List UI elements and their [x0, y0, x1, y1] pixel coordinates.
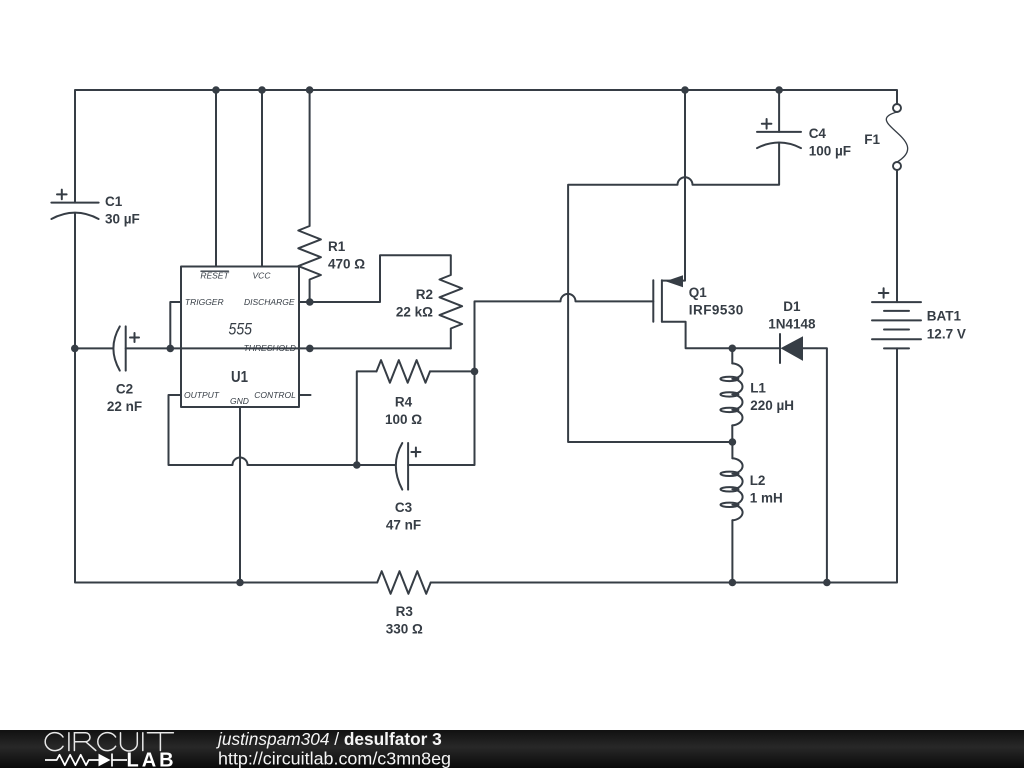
- svg-text:47 nF: 47 nF: [386, 517, 421, 532]
- svg-text:L2: L2: [750, 473, 766, 488]
- svg-text:L1: L1: [750, 381, 766, 396]
- svg-text:OUTPUT: OUTPUT: [184, 390, 220, 400]
- svg-text:TRIGGER: TRIGGER: [185, 297, 224, 307]
- svg-text:LAB: LAB: [127, 750, 177, 768]
- svg-text:BAT1: BAT1: [927, 309, 962, 324]
- svg-text:GND: GND: [230, 396, 249, 406]
- svg-text:R4: R4: [395, 394, 413, 409]
- svg-text:220 µH: 220 µH: [750, 398, 794, 413]
- svg-text:555: 555: [229, 320, 253, 339]
- svg-text:http://circuitlab.com/c3mn8eg: http://circuitlab.com/c3mn8eg: [218, 749, 451, 768]
- svg-text:C1: C1: [105, 194, 123, 209]
- svg-text:DISCHARGE: DISCHARGE: [244, 297, 295, 307]
- svg-text:R3: R3: [396, 604, 414, 619]
- svg-text:100 Ω: 100 Ω: [385, 412, 422, 427]
- svg-text:Q1: Q1: [689, 285, 708, 300]
- svg-text:RESET: RESET: [200, 270, 229, 280]
- svg-text:IRF9530: IRF9530: [689, 303, 744, 318]
- svg-text:30 µF: 30 µF: [105, 211, 140, 226]
- svg-text:470 Ω: 470 Ω: [328, 257, 365, 272]
- svg-text:C3: C3: [395, 500, 413, 515]
- svg-text:100 µF: 100 µF: [809, 144, 851, 159]
- svg-text:THRESHOLD: THRESHOLD: [244, 343, 296, 353]
- svg-text:C4: C4: [809, 126, 827, 141]
- svg-text:F1: F1: [864, 132, 880, 147]
- svg-text:1 mH: 1 mH: [750, 491, 783, 506]
- svg-text:U1: U1: [231, 369, 248, 386]
- svg-text:VCC: VCC: [253, 270, 272, 280]
- svg-text:12.7 V: 12.7 V: [927, 327, 966, 342]
- svg-text:justinspam304 / desulfator 3: justinspam304 / desulfator 3: [216, 729, 442, 749]
- svg-text:22 nF: 22 nF: [107, 399, 142, 414]
- svg-text:C2: C2: [116, 382, 133, 397]
- svg-text:22 kΩ: 22 kΩ: [396, 304, 433, 319]
- svg-text:CONTROL: CONTROL: [254, 390, 296, 400]
- svg-text:1N4148: 1N4148: [768, 317, 816, 332]
- svg-text:R2: R2: [416, 287, 433, 302]
- svg-text:330 Ω: 330 Ω: [386, 622, 423, 637]
- svg-text:D1: D1: [783, 299, 801, 314]
- svg-text:R1: R1: [328, 239, 346, 254]
